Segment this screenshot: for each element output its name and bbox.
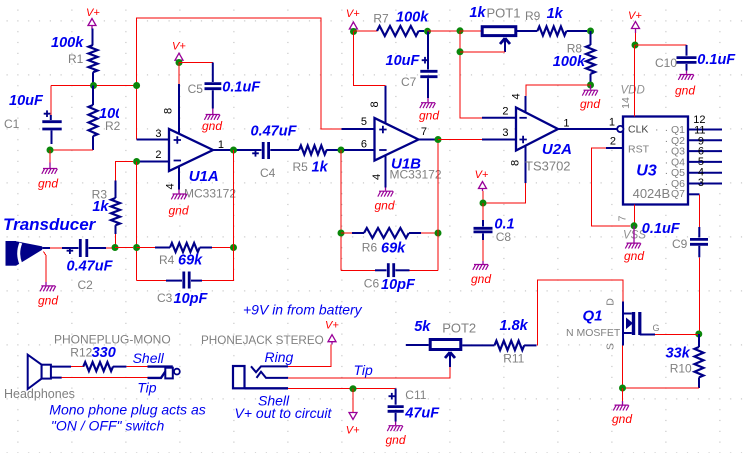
junction R8 bottom (587, 82, 594, 89)
wire C9 to gate node (698, 257, 700, 334)
capacitor C6 (341, 263, 438, 293)
junction V+ U3 (632, 42, 639, 49)
capacitor C1 (4, 86, 62, 145)
svg-text:POT2: POT2 (442, 321, 476, 336)
svg-text:gnd: gnd (202, 119, 222, 133)
svg-text:10uF: 10uF (386, 53, 421, 69)
wire shell row (288, 388, 396, 390)
svg-text:V+: V+ (325, 320, 339, 332)
svg-text:gnd: gnd (675, 84, 695, 98)
wire source row to R10 (623, 387, 700, 389)
wire V+ to C10 (635, 44, 687, 46)
svg-text:U1A: U1A (189, 168, 219, 185)
svg-text:0.1uF: 0.1uF (642, 221, 681, 237)
power V+ (R7/U1B pin8) (346, 8, 360, 32)
svg-text:C4: C4 (260, 166, 276, 180)
junction U1A pin2 node (133, 158, 140, 165)
svg-text:S: S (605, 343, 617, 350)
junction C8 top (480, 200, 487, 207)
svg-text:R6: R6 (362, 241, 378, 255)
svg-text:gnd: gnd (612, 412, 632, 426)
potentiometer POT2 (406, 319, 476, 367)
svg-text:Ring: Ring (265, 349, 294, 365)
wire R4 right red (212, 247, 234, 249)
power V+ (U1A pin8) (172, 41, 186, 63)
junction gate node (695, 331, 702, 338)
wire U3 pin7 down (634, 205, 636, 226)
IC U3 4024B (606, 85, 722, 242)
svg-text:N MOSFET: N MOSFET (566, 327, 621, 339)
capacitor C8 (474, 203, 515, 261)
svg-text:V+: V+ (172, 41, 186, 53)
wire Q1 source down (622, 346, 624, 389)
svg-text:4024B: 4024B (633, 186, 671, 201)
junction C7 node (424, 28, 431, 35)
power V+ (U3) (628, 10, 642, 45)
junction C1 bottom (47, 147, 54, 154)
wire headphone bottom to plug tip (51, 377, 148, 379)
junction U1B pin6 node (338, 147, 345, 154)
power V+ (C8) (475, 169, 489, 203)
svg-text:2: 2 (610, 136, 616, 148)
svg-text:10pF: 10pF (381, 277, 416, 293)
node junction at x137 (133, 82, 140, 89)
svg-text:C7: C7 (401, 75, 417, 89)
svg-text:R7: R7 (373, 12, 389, 26)
svg-text:1: 1 (609, 117, 615, 129)
svg-text:5k: 5k (414, 319, 431, 335)
svg-text:G: G (653, 323, 660, 333)
wire pin2 node to R3 (116, 162, 134, 183)
wire output down to feedback (233, 150, 235, 248)
svg-text:1k: 1k (469, 5, 486, 21)
svg-text:4: 4 (371, 174, 383, 180)
svg-text:gnd: gnd (471, 272, 491, 286)
svg-text:1k: 1k (312, 160, 329, 176)
capacitor C3 (157, 272, 208, 308)
phone jack stereo (233, 349, 373, 409)
capacitor C4 (237, 124, 299, 181)
svg-text:2: 2 (502, 106, 508, 118)
wire RST loop (592, 148, 631, 226)
power V+ (R1 top) (86, 7, 100, 30)
svg-text:6: 6 (361, 139, 367, 151)
wire pin2 node down feedback (136, 162, 138, 281)
resistor R10 (666, 334, 704, 388)
transducer (6, 241, 51, 282)
svg-text:C8: C8 (496, 230, 512, 244)
svg-text:R5: R5 (293, 160, 309, 174)
svg-text:TS3702: TS3702 (525, 159, 571, 174)
capacitor C5 (188, 63, 262, 109)
wire node A to U1A pin3 (136, 86, 138, 140)
wire pin6 node down (340, 150, 342, 270)
resistor R1 (51, 29, 98, 86)
junction V+ U1A (176, 59, 183, 66)
svg-text:gnd: gnd (419, 109, 439, 123)
resistor R11 (462, 318, 536, 366)
svg-text:V+: V+ (346, 425, 360, 437)
svg-text:gnd: gnd (580, 97, 600, 111)
wire R8 bottom to U2A pin4 (526, 85, 591, 97)
svg-text:C3: C3 (157, 291, 173, 305)
resistor R8 (553, 31, 595, 85)
wire V+ to C5 (179, 62, 213, 64)
junction VSS node (631, 222, 638, 229)
ground (C8) (471, 261, 491, 286)
resistor R9 (516, 6, 587, 36)
svg-text:+9V in from battery: +9V in from battery (243, 302, 363, 318)
svg-text:C11: C11 (405, 388, 426, 402)
junction source node (619, 385, 626, 392)
wire R12 to plug shell (126, 366, 148, 368)
svg-text:100k: 100k (396, 10, 429, 26)
svg-text:0.47uF: 0.47uF (67, 259, 114, 275)
wire node to R4 (115, 247, 133, 249)
junction U1A output (230, 147, 237, 154)
wire pot node down to U2A pin2 (460, 31, 482, 118)
svg-text:C10: C10 (655, 56, 677, 70)
svg-text:8: 8 (369, 101, 381, 107)
svg-text:gnd: gnd (386, 433, 406, 447)
ground (U3 VSS) (624, 226, 644, 263)
wire node A top loop to U1B pin5 (137, 18, 342, 129)
ground (C5) (202, 109, 222, 134)
capacitor C2 (62, 239, 114, 292)
svg-text:11: 11 (694, 124, 705, 136)
ground (R8) (580, 85, 600, 111)
resistor R4 (155, 243, 212, 269)
ground (Q1 source) (612, 388, 632, 426)
wire tip to POT2 wiper (288, 367, 450, 378)
capacitor C7 (386, 32, 438, 99)
svg-text:1.8k: 1.8k (500, 318, 529, 334)
ground (C1) (38, 150, 58, 191)
svg-text:Transducer: Transducer (3, 215, 97, 234)
ground (U1B pin4) (375, 188, 395, 213)
resistor R3 (92, 181, 120, 235)
svg-text:1k: 1k (547, 6, 564, 22)
svg-text:7: 7 (617, 215, 629, 221)
wire C2 to node (106, 247, 112, 249)
svg-text:330: 330 (92, 345, 116, 361)
svg-text:R10: R10 (670, 362, 692, 376)
svg-text:V+: V+ (628, 10, 642, 22)
junction feedback right (230, 244, 237, 251)
svg-text:8: 8 (163, 108, 175, 114)
svg-text:1: 1 (218, 139, 224, 151)
headphones speaker (4, 355, 75, 401)
junction C2/R3 (112, 244, 119, 251)
junction R8 top (587, 28, 594, 35)
svg-text:Headphones: Headphones (4, 387, 75, 401)
svg-text:14: 14 (620, 97, 632, 109)
svg-text:4: 4 (165, 183, 177, 189)
wire V+ to U1A pin8 (178, 63, 180, 87)
svg-text:PHONEJACK STEREO: PHONEJACK STEREO (201, 334, 324, 347)
svg-text:C5: C5 (188, 82, 204, 96)
svg-text:R4: R4 (159, 253, 175, 267)
wire C7 node to pot node (428, 30, 461, 32)
wire C3 loop right (202, 248, 234, 281)
svg-text:C6: C6 (364, 277, 380, 291)
svg-text:gnd: gnd (375, 199, 395, 213)
junction R6 right (435, 230, 442, 237)
op-amp U2A (482, 93, 617, 183)
wire gate (655, 334, 699, 336)
svg-text:Tip: Tip (137, 380, 157, 396)
svg-text:U3: U3 (636, 163, 657, 180)
svg-text:R11: R11 (503, 352, 524, 366)
wire C1/R2 bottom row (50, 149, 93, 151)
svg-text:·: · (655, 124, 659, 136)
svg-text:gnd: gnd (169, 204, 189, 218)
svg-text:R9: R9 (525, 9, 541, 23)
svg-text:100k: 100k (553, 54, 586, 70)
svg-text:Q1: Q1 (583, 308, 603, 325)
node A junction (90, 82, 97, 89)
svg-text:C1: C1 (4, 117, 20, 131)
svg-text:gnd: gnd (624, 249, 644, 263)
wire U2A pin8 to V+/C8 (483, 183, 526, 203)
svg-text:47uF: 47uF (404, 406, 440, 422)
svg-text:V+: V+ (86, 7, 100, 19)
junction feedback left (133, 244, 140, 251)
resistor R6 (341, 228, 438, 257)
ground (U1A pin4) (169, 190, 189, 218)
svg-text:8: 8 (510, 160, 522, 166)
wire V+ to U3 pin14 (634, 45, 636, 117)
svg-text:69k: 69k (178, 253, 203, 269)
capacitor C9 (642, 194, 708, 257)
wire ring to V+ (288, 345, 331, 367)
wire U1B out to U2A pin3 (438, 139, 482, 141)
svg-text:D: D (605, 298, 617, 306)
svg-text:POT1: POT1 (487, 6, 521, 21)
svg-text:V+: V+ (346, 8, 360, 20)
svg-text:10pF: 10pF (174, 291, 209, 307)
wire R11 to Q1 drain (537, 280, 623, 345)
op-amp U1A (137, 84, 237, 201)
svg-text:Q7: Q7 (671, 188, 685, 200)
svg-text:0.1uF: 0.1uF (222, 80, 261, 96)
power V+ down (shell) (346, 389, 360, 437)
svg-text:MC33172: MC33172 (390, 168, 442, 182)
svg-text:1k: 1k (92, 199, 109, 215)
junction U1B output (435, 136, 442, 143)
svg-text:3: 3 (502, 127, 508, 139)
svg-text:"ON / OFF" switch: "ON / OFF" switch (51, 418, 165, 434)
junction shell node (350, 385, 357, 392)
svg-text:4: 4 (511, 93, 523, 99)
svg-text:100k: 100k (51, 35, 84, 51)
junction R6 left (338, 230, 345, 237)
svg-text:1: 1 (563, 118, 569, 130)
ground (C10) (675, 71, 695, 98)
wire C3 loop left (137, 280, 168, 282)
svg-text:gnd: gnd (38, 294, 58, 308)
wire node A row (51, 85, 137, 87)
svg-text:7: 7 (421, 126, 427, 138)
svg-text:5: 5 (361, 116, 367, 128)
wire R4 left red (137, 247, 155, 249)
svg-text:gnd: gnd (38, 177, 58, 191)
resistor R2 (89, 86, 133, 151)
svg-text:V+ out to circuit: V+ out to circuit (235, 405, 333, 421)
wire U1B out down feedback (437, 143, 439, 270)
svg-text:CLK: CLK (628, 124, 648, 136)
ground (transducer) (38, 282, 58, 308)
power V+ (jack ring) (325, 320, 339, 345)
junction wiper node (457, 48, 464, 55)
junction V+ R7 (350, 28, 357, 35)
svg-text:MC33172: MC33172 (184, 187, 236, 201)
wire R3 to C2 node (115, 234, 117, 248)
svg-text:0.47uF: 0.47uF (251, 124, 298, 140)
capacitor C10 (655, 45, 736, 71)
svg-text:Shell: Shell (133, 350, 165, 366)
junction pot left (457, 27, 464, 34)
svg-text:R2: R2 (105, 119, 121, 133)
svg-text:Tip: Tip (354, 362, 374, 378)
svg-text:R1: R1 (68, 52, 84, 66)
resistor R7 (354, 10, 430, 37)
phone plug mono (133, 350, 180, 396)
svg-text:2: 2 (155, 149, 161, 161)
svg-text:C9: C9 (672, 237, 688, 251)
svg-text:33k: 33k (666, 346, 691, 362)
svg-text:3: 3 (155, 128, 161, 140)
transistor Q1 (566, 298, 660, 350)
svg-text:10uF: 10uF (9, 93, 44, 109)
svg-text:R12: R12 (70, 346, 92, 360)
svg-text:0.1uF: 0.1uF (697, 52, 736, 68)
svg-text:Mono phone plug acts as: Mono phone plug acts as (49, 402, 205, 418)
wire V+ to U1B pin8 (354, 32, 386, 86)
resistor R5 (293, 146, 339, 176)
svg-text:RST: RST (628, 144, 650, 156)
svg-text:U2A: U2A (542, 141, 572, 158)
svg-text:V+: V+ (475, 169, 489, 181)
capacitor C11 (388, 388, 441, 422)
svg-text:3: 3 (698, 177, 704, 189)
svg-text:C2: C2 (78, 278, 94, 292)
svg-text:VDD: VDD (621, 85, 645, 97)
ground (C7) (419, 98, 439, 123)
potentiometer POT1 (460, 5, 520, 52)
wire transducer to C2 (50, 247, 62, 249)
ground (C11) (386, 422, 406, 448)
svg-text:69k: 69k (381, 241, 406, 257)
op-amp U1B (342, 86, 442, 188)
resistor R12 (51, 345, 127, 371)
